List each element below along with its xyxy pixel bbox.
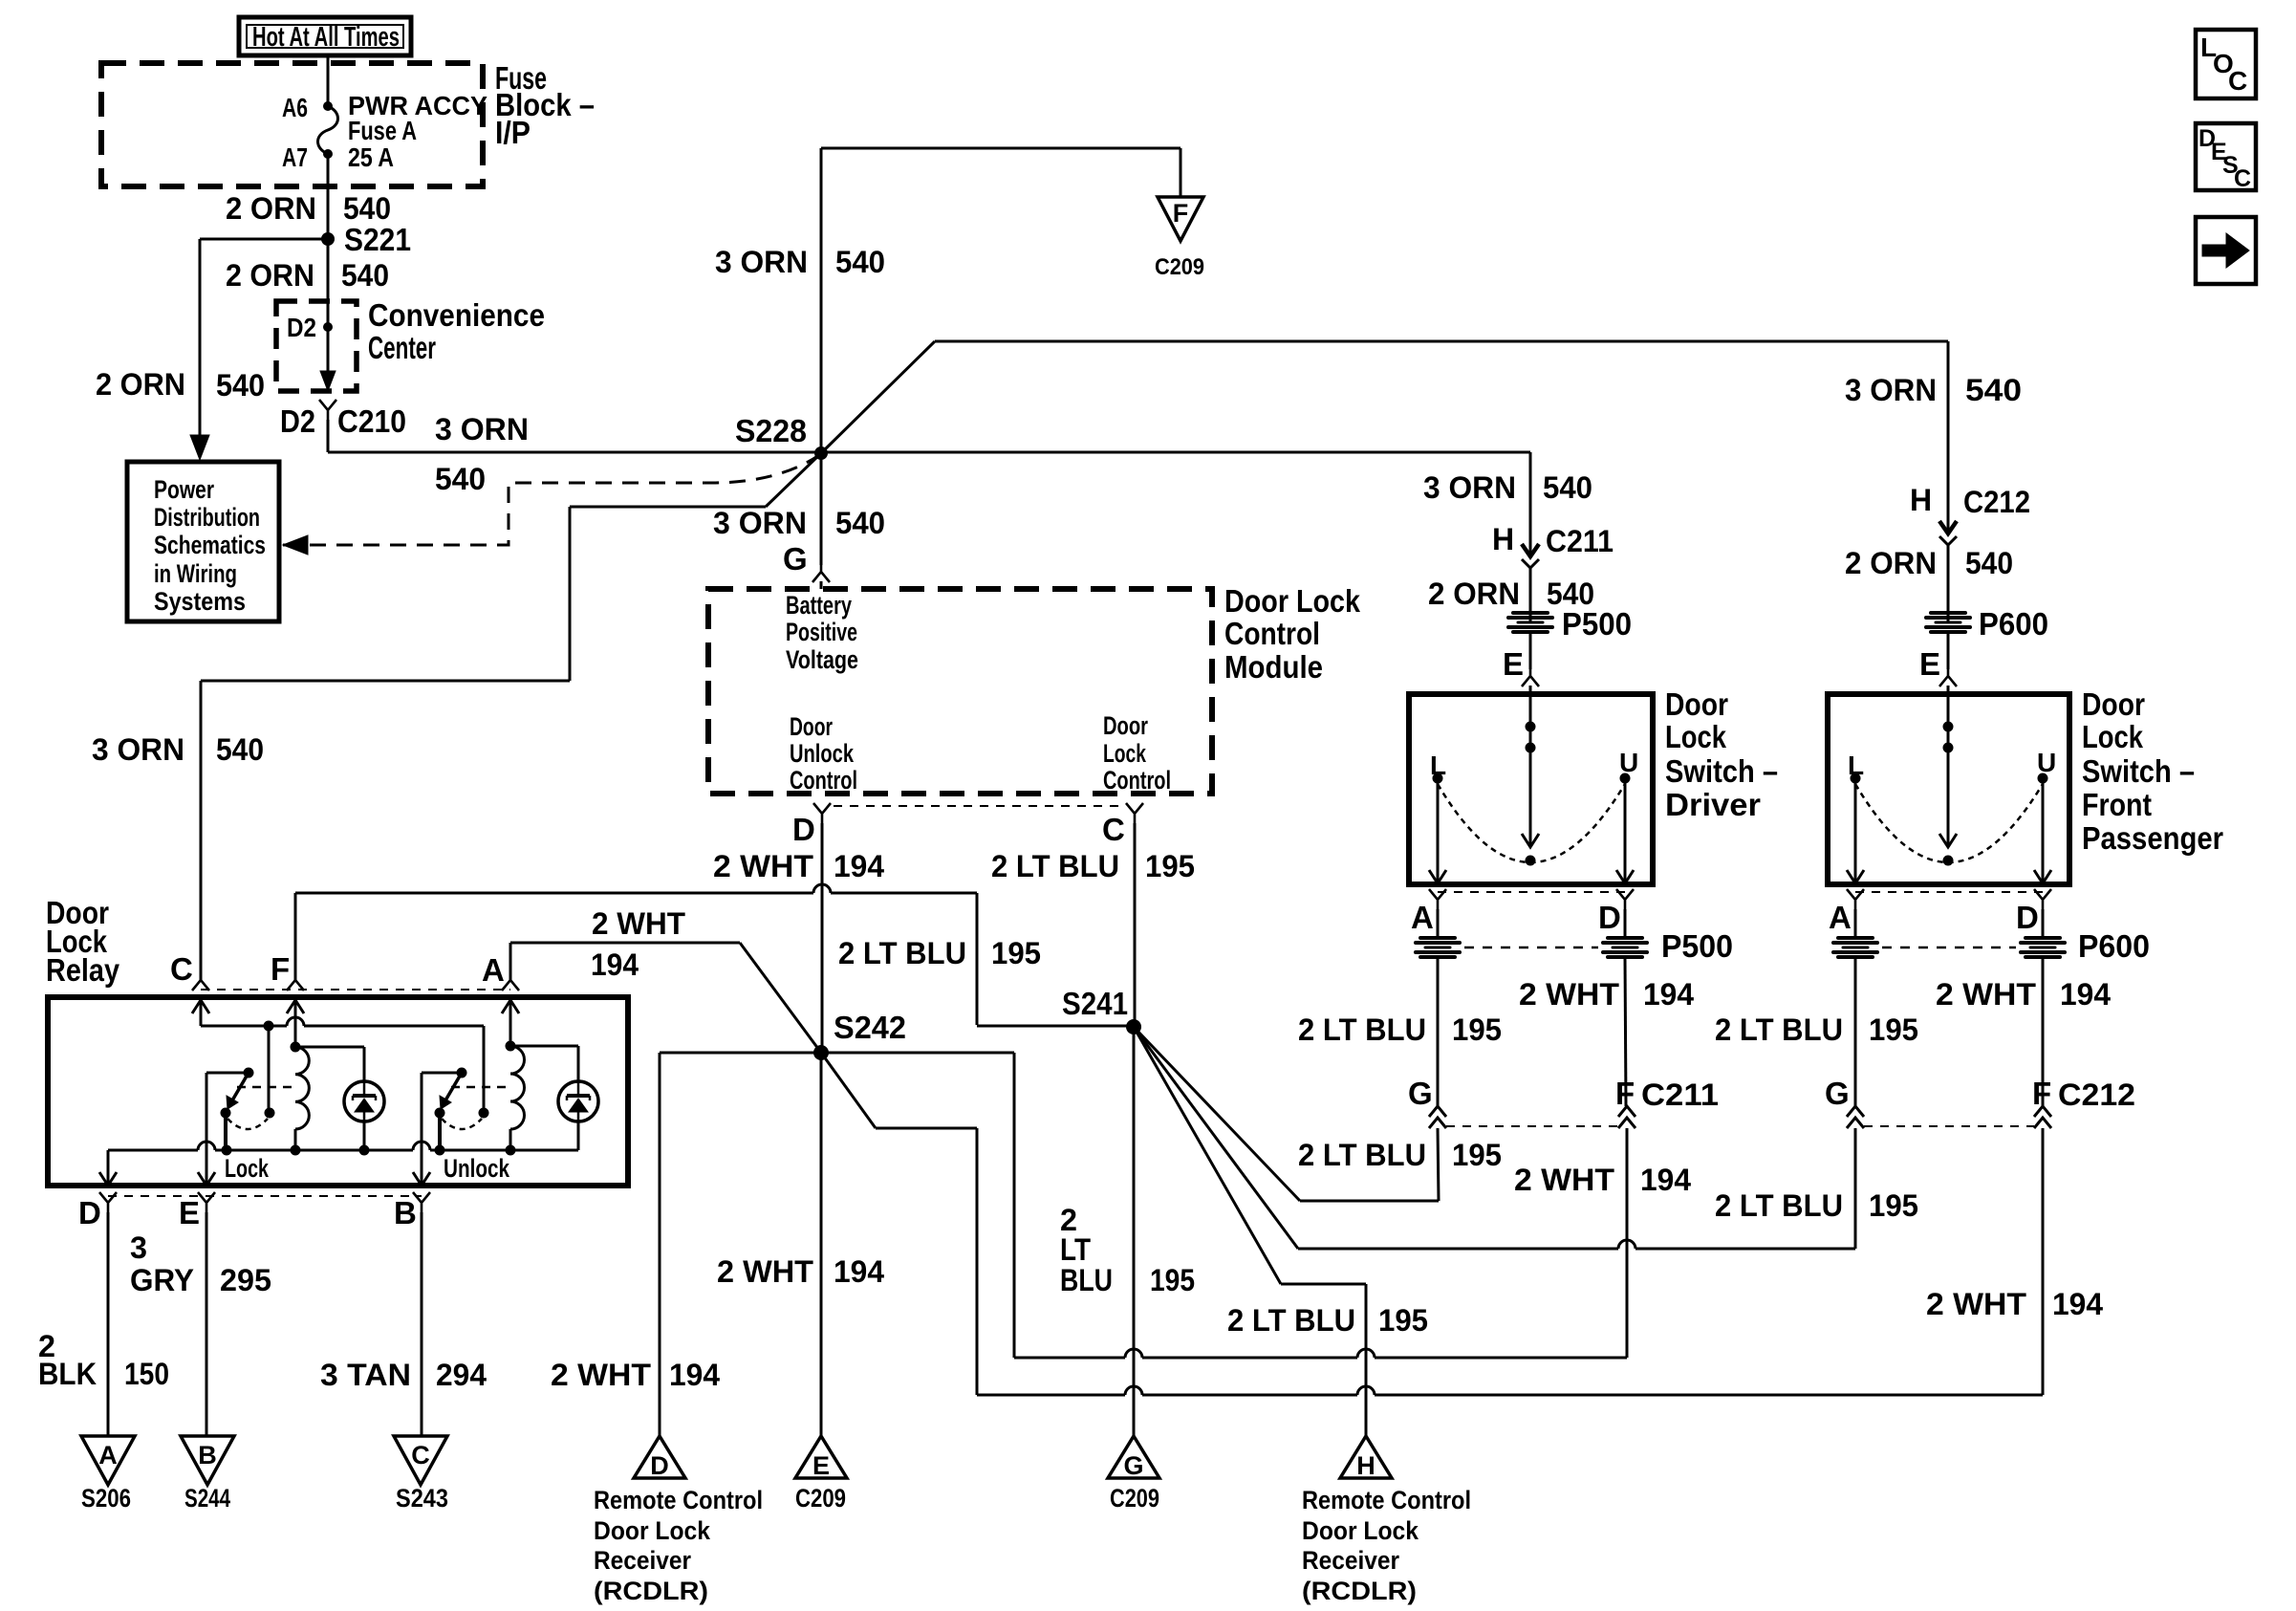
svg-text:Remote Control: Remote Control [1302, 1486, 1471, 1514]
wire: module C down to S241 [1134, 823, 1137, 1027]
svg-text:Lock: Lock [1103, 739, 1147, 768]
svg-text:Relay: Relay [46, 952, 120, 988]
svg-text:Unlock: Unlock [790, 739, 855, 768]
svg-text:C209: C209 [795, 1484, 846, 1513]
driver switch U contact [1620, 773, 1631, 784]
svg-text:2 WHT: 2 WHT [1926, 1287, 2026, 1321]
module connector dashed line [834, 805, 1121, 807]
svg-text:3 ORN: 3 ORN [713, 506, 807, 540]
grommet P500 (feed) [1529, 603, 1532, 622]
svg-text:25 A: 25 A [348, 142, 394, 172]
svg-text:G: G [1123, 1451, 1143, 1480]
svg-text:Center: Center [368, 330, 436, 365]
wire: module D down to S242 [821, 823, 824, 1053]
svg-text:P600: P600 [2078, 928, 2150, 964]
svg-text:3 ORN: 3 ORN [1845, 373, 1937, 407]
svg-text:195: 195 [1452, 1138, 1502, 1172]
svg-text:S228: S228 [735, 413, 807, 448]
svg-text:2 WHT: 2 WHT [717, 1254, 813, 1289]
svg-text:3 TAN: 3 TAN [320, 1358, 411, 1392]
relay bottom bus [108, 1149, 198, 1152]
svg-text:G: G [1825, 1076, 1850, 1111]
wire: C210 down and right toward S228 [327, 420, 330, 452]
svg-text:Unlock: Unlock [444, 1154, 510, 1183]
svg-text:540: 540 [216, 368, 265, 403]
wire: fuse A7 down to S221 [327, 154, 330, 239]
clamp diode 1 [344, 1081, 384, 1121]
driver pin A connector [1429, 889, 1446, 909]
svg-text:C211: C211 [1546, 524, 1614, 558]
legend box LOC [2196, 30, 2256, 98]
wire: main feed corner down to driver switch [1529, 452, 1532, 556]
wire: passenger pin D down (2 WHT) [2042, 958, 2045, 1106]
grommet P500 pair at driver door boundary [1437, 909, 1440, 938]
svg-text:BLK: BLK [38, 1357, 97, 1391]
svg-text:540: 540 [341, 258, 389, 293]
arrowhead into power distribution box [190, 435, 209, 460]
svg-text:Voltage: Voltage [786, 645, 858, 674]
relay pin C internal arrow [192, 1000, 209, 1013]
driver switch U to pin D with arrow [1624, 778, 1627, 870]
legend box DESC [2196, 123, 2256, 190]
svg-text:Door Lock: Door Lock [1302, 1516, 1419, 1545]
grommet P600 (feed) [1947, 572, 1950, 622]
unlock switch contacts [435, 1108, 445, 1119]
svg-text:C209: C209 [1110, 1484, 1159, 1513]
svg-text:S242: S242 [834, 1010, 906, 1045]
wire: unlock coil to clamp diode 2 [510, 1045, 578, 1048]
connector C210 pin D2 (Y symbol) [319, 400, 336, 420]
passenger switch center feed with arrow [1947, 694, 1950, 834]
splice triangle C S243 [394, 1436, 447, 1485]
svg-text:S241: S241 [1062, 986, 1128, 1021]
fuse block I/P dashed box [101, 63, 483, 186]
svg-text:2 LT BLU: 2 LT BLU [1298, 1012, 1426, 1047]
svg-text:A7: A7 [282, 142, 308, 172]
svg-text:3 ORN: 3 ORN [1423, 470, 1516, 505]
svg-text:194: 194 [1643, 977, 1694, 1012]
svg-text:S206: S206 [81, 1484, 131, 1513]
svg-text:C210: C210 [337, 403, 406, 439]
wire: diagonal from S228 up-right to passenger feed [821, 341, 935, 453]
svg-text:540: 540 [1543, 470, 1592, 505]
wire: S221 left branch to Power Distribution [200, 238, 328, 241]
relay internal wire: C bus to unlock contact [201, 1025, 287, 1028]
unlock switch link dashes to coil [451, 1086, 508, 1089]
wire: long run to passenger F C212 [977, 1394, 1125, 1397]
dashed arrowhead into power distribution box [283, 535, 308, 555]
svg-text:L: L [1430, 751, 1446, 780]
svg-text:Lock: Lock [225, 1154, 270, 1183]
wire: S241 down to C209 G [1133, 1027, 1136, 1436]
wire: passenger pin A down (2 LT BLU) [1854, 958, 1857, 1106]
relay pin D connector [99, 1192, 117, 1212]
svg-text:Systems: Systems [154, 587, 246, 616]
wire: unlock pivot to relay pin B [422, 1072, 462, 1075]
lock switch pivot and arm [244, 1068, 254, 1078]
wire: relay F pin up and right (2 WHT trunk) [294, 893, 297, 980]
connector triangle H RCDLR [1340, 1436, 1392, 1478]
svg-text:(RCDLR): (RCDLR) [1302, 1577, 1417, 1605]
svg-text:Control: Control [1103, 766, 1171, 795]
svg-text:H: H [1492, 522, 1514, 556]
wire: driver pin D down (2 WHT) [1625, 958, 1626, 1106]
svg-text:C209: C209 [1155, 254, 1204, 280]
splice triangle B S244 [181, 1436, 234, 1485]
module pin D connector [813, 803, 831, 823]
svg-text:540: 540 [835, 506, 885, 540]
svg-text:3 ORN: 3 ORN [435, 412, 529, 446]
svg-text:D: D [650, 1451, 669, 1480]
svg-text:Control: Control [790, 766, 857, 795]
svg-text:3 ORN: 3 ORN [92, 732, 184, 767]
svg-text:L: L [1848, 751, 1864, 780]
wire: riser from S228 up to top distribution [820, 148, 823, 453]
svg-text:C212: C212 [2058, 1078, 2135, 1112]
svg-text:3: 3 [130, 1230, 147, 1265]
svg-text:2 WHT: 2 WHT [1519, 977, 1619, 1012]
svg-text:Convenience: Convenience [368, 297, 545, 333]
module pin C connector [1126, 803, 1143, 823]
svg-text:LT: LT [1060, 1232, 1091, 1267]
splice S228 [814, 446, 828, 460]
lock switch link dashes to coil [237, 1086, 292, 1089]
svg-text:E: E [179, 1195, 200, 1230]
svg-text:194: 194 [834, 849, 884, 883]
svg-text:D2: D2 [287, 313, 316, 342]
lock switch dashed throw arc [227, 1119, 268, 1129]
svg-text:195: 195 [1869, 1012, 1918, 1047]
door lock switch driver box [1409, 694, 1653, 884]
svg-text:Receiver: Receiver [594, 1546, 691, 1575]
svg-text:540: 540 [1965, 546, 2013, 580]
svg-text:F: F [271, 951, 290, 987]
label box: Hot At All Times [239, 17, 411, 55]
driver switch L contact [1433, 773, 1443, 784]
svg-text:Passenger: Passenger [2082, 820, 2223, 856]
wire into passenger switch pin E [1947, 633, 1950, 669]
fuse A PWR ACCY 25A symbol [323, 101, 333, 111]
svg-text:S244: S244 [184, 1484, 230, 1513]
svg-text:2 WHT: 2 WHT [713, 849, 813, 883]
svg-text:194: 194 [2060, 977, 2111, 1012]
svg-text:D: D [1598, 900, 1621, 935]
svg-text:540: 540 [216, 732, 264, 767]
svg-text:E: E [1919, 646, 1940, 682]
wire: hot feed into fuse [327, 55, 330, 106]
svg-text:2 WHT: 2 WHT [1936, 977, 2036, 1012]
wire: S228 down to module battery pin G [820, 453, 823, 565]
svg-text:GRY: GRY [130, 1263, 194, 1297]
passenger switch dashed throw arc [1855, 784, 2043, 862]
svg-text:D: D [2016, 900, 2039, 935]
svg-text:Switch –: Switch – [1665, 753, 1778, 789]
driver switch dashed throw arc [1438, 784, 1625, 862]
svg-text:Lock: Lock [2082, 719, 2144, 754]
svg-text:S221: S221 [344, 222, 411, 257]
dashed reference wire from S228 to power distribution box [283, 455, 819, 545]
driver switch connector dashed line [1438, 891, 1625, 893]
relay pin A internal arrow [502, 1000, 519, 1013]
splice S241 [1126, 1019, 1141, 1034]
svg-text:Receiver: Receiver [1302, 1546, 1399, 1575]
wire: S242 diagonal down to passenger F run [821, 1053, 876, 1128]
svg-text:2 LT BLU: 2 LT BLU [1715, 1188, 1843, 1223]
driver pin D connector [1616, 889, 1634, 909]
svg-text:2 ORN: 2 ORN [226, 258, 314, 293]
svg-text:Door Lock: Door Lock [594, 1516, 711, 1545]
wire: bus left end to relay pin D [107, 1150, 110, 1172]
passenger switch L contact [1851, 773, 1861, 784]
svg-text:3 ORN: 3 ORN [715, 245, 808, 279]
svg-text:Door: Door [1103, 711, 1148, 740]
connector triangle F C209 [1158, 197, 1203, 241]
svg-text:2 WHT: 2 WHT [551, 1358, 651, 1392]
door lock switch front passenger box [1828, 694, 2069, 884]
relay pin F internal arrow [287, 1000, 304, 1013]
grommet P600 pair at passenger door boundary [1854, 909, 1857, 938]
svg-text:Battery: Battery [786, 591, 852, 620]
wire: S241 fan to driver G (2 LT BLU) [1134, 1027, 1300, 1201]
unlock switch dashed throw arc [442, 1119, 482, 1129]
wire: S242 down to C209 E [820, 1053, 823, 1436]
connector triangle D RCDLR [634, 1436, 685, 1478]
svg-text:Driver: Driver [1665, 787, 1761, 822]
driver switch L to pin A with arrow [1437, 778, 1440, 870]
wire: lock pivot to relay pin E [206, 1072, 249, 1075]
relay pin C connector [192, 970, 209, 991]
wire: below C212 G to corner [1854, 1128, 1857, 1249]
svg-text:in Wiring: in Wiring [154, 559, 237, 588]
passenger switch U contact [2038, 773, 2048, 784]
svg-text:C212: C212 [1963, 485, 2030, 519]
svg-text:BLU: BLU [1060, 1263, 1113, 1297]
svg-text:E: E [812, 1451, 830, 1480]
svg-text:540: 540 [343, 191, 391, 226]
svg-text:E: E [1503, 646, 1524, 682]
svg-text:C: C [411, 1441, 430, 1469]
svg-text:540: 540 [435, 462, 486, 496]
svg-text:C211: C211 [1641, 1078, 1719, 1112]
svg-text:Fuse A: Fuse A [348, 116, 417, 145]
svg-text:Distribution: Distribution [154, 503, 260, 532]
svg-text:2 WHT: 2 WHT [1514, 1163, 1614, 1197]
svg-text:P500: P500 [1661, 928, 1733, 964]
svg-text:2 ORN: 2 ORN [96, 367, 185, 402]
svg-text:Module: Module [1224, 649, 1323, 685]
svg-text:Control: Control [1224, 616, 1320, 651]
svg-text:C: C [2234, 165, 2251, 192]
svg-text:A6: A6 [282, 93, 308, 122]
power distribution schematics reference box [127, 462, 279, 621]
svg-text:194: 194 [669, 1358, 720, 1392]
svg-text:Door: Door [790, 712, 833, 741]
wire: S241 fan to passenger G (2 LT BLU) [1134, 1027, 1298, 1249]
svg-text:C: C [170, 951, 193, 987]
legend box arrow [2196, 217, 2256, 284]
svg-text:Remote Control: Remote Control [594, 1486, 763, 1514]
lock switch contacts [221, 1108, 231, 1119]
svg-text:Door: Door [1665, 686, 1728, 722]
svg-text:U: U [1619, 748, 1638, 777]
wire into driver switch pin E [1529, 633, 1532, 669]
junction dot on C bus [264, 1021, 274, 1032]
splice triangle A S206 [81, 1436, 135, 1485]
svg-text:Lock: Lock [1665, 719, 1727, 754]
svg-text:2 ORN: 2 ORN [1845, 546, 1937, 580]
svg-text:H: H [1356, 1451, 1375, 1480]
wire: S242 right to driver F run [821, 1052, 1014, 1055]
svg-text:A: A [1411, 900, 1434, 935]
door lock control module dashed box [708, 589, 1212, 794]
svg-text:U: U [2037, 748, 2056, 777]
clamp diode 2 [558, 1081, 598, 1121]
svg-text:A: A [1829, 900, 1852, 935]
svg-text:D2: D2 [280, 403, 315, 439]
svg-text:Positive: Positive [786, 618, 857, 646]
connector at module pin G [812, 562, 830, 582]
svg-text:294: 294 [436, 1358, 487, 1392]
passenger switch L to pin A with arrow [1854, 778, 1857, 870]
wire: S221 down to convenience center [327, 239, 330, 301]
driver switch center feed with arrow [1529, 694, 1532, 834]
wire: run to driver F C211 [1014, 1357, 1125, 1360]
connector triangle E C209 [795, 1436, 847, 1478]
svg-text:Switch –: Switch – [2082, 753, 2195, 789]
wire: lock coil to clamp diode 1 [295, 1046, 364, 1049]
svg-text:D: D [792, 812, 815, 847]
svg-text:C: C [2228, 66, 2247, 96]
svg-text:H: H [1910, 483, 1932, 517]
svg-text:2 LT BLU: 2 LT BLU [1298, 1138, 1426, 1172]
svg-text:2 LT BLU: 2 LT BLU [1715, 1012, 1843, 1047]
passenger switch connector dashed line [1855, 891, 2043, 893]
relay pin F connector [287, 970, 304, 991]
svg-text:G: G [1408, 1076, 1433, 1111]
svg-text:B: B [198, 1441, 217, 1469]
wire: relay D to splice triangle A [107, 1212, 110, 1436]
svg-text:195: 195 [1150, 1263, 1195, 1297]
relay top connector dashed line [201, 989, 510, 991]
svg-text:D: D [78, 1195, 101, 1230]
svg-text:Door Lock: Door Lock [1224, 583, 1361, 619]
svg-text:2 LT BLU: 2 LT BLU [991, 849, 1119, 883]
svg-text:2 WHT: 2 WHT [592, 906, 685, 941]
unlock coil [506, 1041, 516, 1052]
relay pin E connector [198, 1192, 215, 1212]
relay pin A connector [502, 970, 519, 991]
wire: relay B to splice triangle C [421, 1212, 423, 1436]
svg-text:150: 150 [124, 1357, 169, 1391]
wire: S241 fan to RCDLR H (2 LT BLU) [1134, 1027, 1281, 1284]
svg-text:Door: Door [2082, 686, 2145, 722]
passenger switch U to pin D with arrow [2042, 778, 2045, 870]
svg-text:540: 540 [835, 245, 885, 279]
svg-text:195: 195 [1145, 849, 1195, 883]
wire: diagonal from S228 down-left to relay C feed [766, 453, 821, 507]
wire: relay A pin up right diagonal through S242 [509, 943, 512, 980]
relay pin B connector [413, 1192, 430, 1212]
svg-text:Front: Front [2082, 787, 2152, 822]
svg-text:A: A [98, 1441, 118, 1469]
svg-text:C: C [1102, 812, 1125, 847]
splice S242 [813, 1045, 829, 1060]
svg-text:2 ORN: 2 ORN [226, 191, 316, 226]
unlock switch pivot and arm [457, 1068, 467, 1078]
wire: driver pin A down (2 LT BLU) [1437, 958, 1440, 1106]
svg-text:S243: S243 [396, 1484, 448, 1513]
svg-text:P500: P500 [1562, 606, 1632, 642]
passenger pin A connector [1847, 889, 1864, 909]
svg-text:194: 194 [2052, 1287, 2103, 1321]
svg-text:195: 195 [1869, 1188, 1918, 1223]
svg-text:F: F [1173, 199, 1189, 228]
svg-text:Power: Power [154, 475, 214, 504]
svg-text:195: 195 [1452, 1012, 1502, 1047]
door lock relay box [48, 997, 628, 1186]
convenience center dashed box [276, 301, 357, 391]
lock coil [291, 1042, 301, 1053]
svg-text:Hot At All Times: Hot At All Times [252, 22, 400, 53]
wire: feed down to passenger switch [1947, 341, 1950, 533]
svg-text:F: F [1615, 1076, 1635, 1111]
splice S221 [321, 232, 335, 246]
wire: D2 down with arrow to box edge [327, 327, 330, 379]
svg-text:2 LT BLU: 2 LT BLU [1227, 1303, 1355, 1338]
passenger pin D connector [2034, 889, 2051, 909]
svg-text:195: 195 [1378, 1303, 1428, 1338]
relay bottom connector dashed line [108, 1195, 422, 1197]
svg-text:G: G [783, 541, 808, 577]
svg-text:B: B [394, 1195, 417, 1230]
svg-text:(RCDLR): (RCDLR) [594, 1577, 708, 1605]
wire: below C211 G to corner [1438, 1128, 1439, 1201]
svg-text:194: 194 [1640, 1163, 1691, 1197]
connector triangle G C209 [1108, 1436, 1159, 1478]
svg-text:Schematics: Schematics [154, 531, 266, 559]
svg-text:194: 194 [591, 947, 639, 982]
svg-text:I/P: I/P [495, 115, 531, 150]
wire: relay E to splice triangle B [206, 1212, 208, 1436]
svg-text:295: 295 [220, 1263, 271, 1297]
svg-text:2 ORN: 2 ORN [1428, 577, 1520, 611]
svg-text:195: 195 [991, 936, 1041, 970]
svg-text:540: 540 [1965, 373, 2022, 407]
svg-text:2 LT BLU: 2 LT BLU [838, 936, 966, 970]
svg-text:A: A [482, 952, 505, 988]
svg-text:194: 194 [834, 1254, 884, 1289]
wire: top run to connector F C209 [821, 147, 1180, 150]
svg-text:P600: P600 [1979, 606, 2048, 642]
wire: S242 left branch to RCDLR D [660, 1052, 821, 1055]
